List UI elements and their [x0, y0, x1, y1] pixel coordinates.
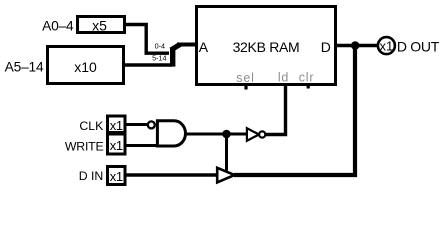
svg-text:x1: x1	[110, 138, 123, 153]
svg-text:D: D	[321, 39, 331, 55]
svg-text:x5: x5	[92, 18, 107, 34]
svg-text:32KB RAM: 32KB RAM	[233, 39, 300, 55]
svg-text:x10: x10	[74, 59, 97, 75]
svg-text:clr: clr	[299, 71, 315, 85]
svg-text:WRITE: WRITE	[65, 139, 104, 153]
svg-text:CLK: CLK	[79, 119, 104, 133]
svg-text:sel: sel	[236, 71, 254, 85]
svg-text:A0–4: A0–4	[42, 19, 74, 34]
svg-text:5-14: 5-14	[152, 54, 166, 63]
svg-text:0-4: 0-4	[155, 42, 165, 51]
svg-text:x1: x1	[110, 169, 123, 184]
svg-text:A: A	[199, 39, 209, 55]
svg-text:x1: x1	[380, 39, 394, 54]
svg-text:x1: x1	[110, 118, 123, 133]
svg-text:D IN: D IN	[79, 169, 104, 183]
svg-text:A5–14: A5–14	[5, 59, 44, 74]
svg-text:ld: ld	[278, 71, 289, 85]
svg-text:D OUT: D OUT	[397, 38, 440, 54]
